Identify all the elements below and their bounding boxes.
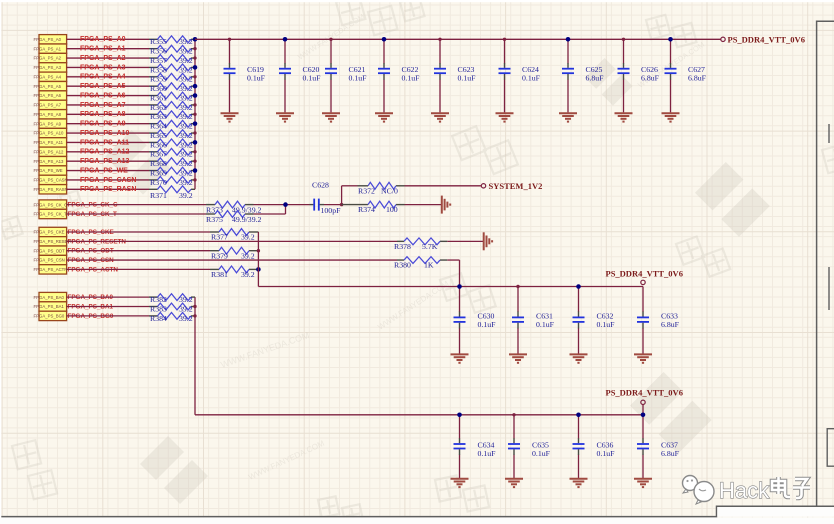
resistor R371 — [149, 186, 195, 200]
svg-text:PS_DDR4_VTT_0V6: PS_DDR4_VTT_0V6 — [728, 34, 805, 44]
svg-text:FPGA_PS_A12: FPGA_PS_A12 — [34, 149, 64, 154]
svg-text:39.2: 39.2 — [179, 304, 193, 313]
ground C636 — [570, 479, 588, 487]
wire stem C631 — [517, 287, 519, 313]
svg-text:39.2: 39.2 — [241, 251, 255, 260]
junction C626 — [622, 38, 625, 41]
capacitor C634 — [454, 438, 497, 458]
resistor R365 — [149, 130, 195, 140]
svg-text:PS_DDR4_VTT_0V6: PS_DDR4_VTT_0V6 — [606, 388, 683, 398]
svg-text:FPGA_PS_A5: FPGA_PS_A5 — [80, 83, 126, 90]
junction ODT tap — [257, 249, 260, 252]
wire VTT bus 1 — [258, 286, 643, 288]
wire FPGA_PS_BA1 — [67, 306, 149, 308]
svg-text:FPGA_PS_A6: FPGA_PS_A6 — [80, 92, 126, 99]
resistor R357 — [149, 55, 195, 65]
svg-text:R361: R361 — [150, 93, 167, 102]
svg-text:FPGA_PS_A13: FPGA_PS_A13 — [34, 159, 64, 164]
junction C631 — [516, 285, 519, 288]
svg-text:PS_DDR4_VTT_0V6: PS_DDR4_VTT_0V6 — [606, 269, 683, 279]
wire stem C623 — [439, 39, 441, 63]
svg-text:0.1uF: 0.1uF — [597, 449, 616, 458]
svg-text:39.2: 39.2 — [179, 295, 193, 304]
svg-text:R372: R372 — [358, 187, 375, 196]
wire BA bus vertical — [194, 297, 196, 415]
resistor R384 — [149, 313, 195, 323]
wire CKE — [67, 231, 210, 233]
svg-text:FPGA_PS_A7: FPGA_PS_A7 — [34, 103, 62, 108]
svg-text:FPGA_PS_RASN: FPGA_PS_RASN — [34, 187, 68, 192]
ground C630 — [451, 354, 469, 362]
svg-text:R363: R363 — [150, 112, 167, 121]
power port SYSTEM_1V2 — [481, 184, 485, 188]
top margin — [0, 0, 834, 2]
ground C626 — [615, 113, 633, 121]
capacitor C630 — [454, 312, 497, 330]
resistor R358 — [149, 64, 195, 74]
svg-text:R379: R379 — [211, 251, 228, 260]
junction C622 — [382, 37, 387, 42]
svg-text:FPGA_PS_A3: FPGA_PS_A3 — [80, 64, 126, 71]
svg-text:R382: R382 — [150, 295, 167, 304]
svg-text:R356: R356 — [150, 47, 167, 56]
right edge bracket — [827, 429, 834, 467]
svg-text:39.2: 39.2 — [179, 47, 193, 56]
sheet border right — [817, 21, 834, 506]
ground after R378 — [484, 232, 492, 250]
power port PS_DDR4_VTT_0V6 top — [721, 37, 725, 41]
svg-text:39.2: 39.2 — [179, 37, 193, 46]
svg-text:39.2: 39.2 — [179, 65, 193, 74]
ground C632 — [570, 354, 588, 362]
svg-text:FPGA_PS_A7: FPGA_PS_A7 — [80, 102, 126, 109]
resistor R360 — [149, 83, 195, 93]
svg-text:39.2: 39.2 — [179, 131, 193, 140]
svg-text:6.8uF: 6.8uF — [688, 73, 707, 82]
capacitor C626 — [618, 63, 660, 82]
resistor R381 — [210, 266, 258, 279]
right edge segment 1 — [828, 124, 830, 143]
ground C622 — [375, 113, 393, 121]
wire stem C626 — [623, 39, 625, 63]
svg-text:100pF: 100pF — [321, 206, 342, 215]
svg-text:FPGA_PS_A1: FPGA_PS_A1 — [80, 46, 126, 53]
wire R372 to SYSTEM_1V2 — [405, 185, 482, 187]
svg-text:39.2: 39.2 — [241, 233, 255, 242]
port group FPGA_PS CKE..ACTN — [34, 227, 74, 274]
svg-text:39.2: 39.2 — [179, 168, 193, 177]
ground C621 — [322, 113, 340, 121]
ground C635 — [505, 479, 523, 487]
svg-text:FPGA_PS_A10: FPGA_PS_A10 — [34, 131, 64, 136]
junction row 1 — [193, 47, 196, 50]
wire FPGA_PS_A5 — [67, 85, 149, 87]
svg-text:FPGA_PS_A8: FPGA_PS_A8 — [80, 111, 126, 118]
svg-text:FPGA_PS_A5: FPGA_PS_A5 — [34, 84, 62, 89]
power port PS_DDR4_VTT_0V6 mid — [641, 280, 645, 284]
svg-text:FPGA_PS_A10: FPGA_PS_A10 — [80, 130, 130, 137]
svg-text:R370: R370 — [150, 178, 167, 187]
wire VTT port stub — [642, 405, 644, 415]
svg-text:0.1uF: 0.1uF — [349, 73, 368, 82]
wire FPGA_PS_A10 — [67, 132, 149, 134]
capacitor C622 — [378, 63, 420, 82]
bottom margin — [0, 518, 834, 524]
svg-text:FPGA_PS_A13: FPGA_PS_A13 — [80, 158, 130, 165]
junction row 0 — [193, 37, 198, 42]
svg-text:39.2: 39.2 — [179, 112, 193, 121]
wire FPGA_PS_A1 — [67, 48, 149, 50]
capacitor C625 — [562, 63, 604, 82]
svg-text:FPGA_PS_A4: FPGA_PS_A4 — [80, 74, 126, 81]
wire CK_C to C628 — [254, 204, 310, 206]
svg-text:FPGA_PS_WE: FPGA_PS_WE — [80, 167, 128, 174]
resistor R375 — [206, 211, 262, 224]
capacitor C628 — [310, 181, 342, 215]
wire FPGA_PS_A0 — [67, 38, 149, 40]
bottom right margin — [717, 507, 834, 516]
capacitor C624 — [499, 63, 541, 82]
svg-text:R375: R375 — [206, 215, 223, 224]
wire PS_DDR4_VTT_0V6 top bus — [195, 38, 721, 40]
wire stem C627 — [670, 39, 672, 63]
left margin — [0, 0, 1, 524]
svg-text:39.2: 39.2 — [179, 150, 193, 159]
resistor R370 — [149, 177, 195, 187]
svg-text:FPGA_PS_CKE: FPGA_PS_CKE — [34, 230, 65, 235]
wire R380 drop — [447, 259, 459, 261]
resistor R372 — [358, 182, 405, 195]
resistor R379 — [210, 247, 258, 260]
wire resistor output bus — [194, 39, 196, 189]
ground C623 — [431, 113, 449, 121]
svg-text:R355: R355 — [150, 37, 167, 46]
junction CK join — [283, 202, 288, 207]
svg-text:0.1uF: 0.1uF — [458, 73, 477, 82]
svg-text:39.2: 39.2 — [241, 270, 255, 279]
junction row 7 — [193, 103, 196, 106]
wire FPGA_PS_A9 — [67, 123, 149, 125]
wire CSN — [67, 259, 397, 261]
junction row 12 — [193, 150, 196, 153]
svg-text:39.2: 39.2 — [179, 122, 193, 131]
capacitor C623 — [434, 63, 476, 82]
svg-text:R380: R380 — [394, 261, 411, 270]
resistor R355 — [149, 36, 195, 46]
svg-text:FPGA_PS_A11: FPGA_PS_A11 — [34, 140, 64, 145]
resistor R374 — [342, 201, 405, 214]
wire FPGA_PS_A7 — [67, 104, 149, 106]
svg-text:FPGA_PS_A0: FPGA_PS_A0 — [34, 37, 62, 42]
wire CK_T — [67, 213, 206, 215]
junction C634 — [457, 413, 462, 418]
svg-text:R374: R374 — [358, 205, 375, 214]
wire stem C624 — [504, 39, 506, 63]
resistor R361 — [149, 92, 195, 102]
resistor R364 — [149, 120, 195, 130]
wire FPGA_PS_A6 — [67, 95, 149, 97]
svg-text:39.2: 39.2 — [179, 159, 193, 168]
svg-text:FPGA_PS_A2: FPGA_PS_A2 — [80, 55, 126, 62]
svg-text:R364: R364 — [150, 122, 167, 131]
port group FPGA_PS_CK — [34, 200, 68, 219]
svg-text:FPGA_PS_A12: FPGA_PS_A12 — [80, 149, 130, 156]
svg-text:FPGA_PS_ACTN: FPGA_PS_ACTN — [34, 267, 68, 272]
ground C627 — [662, 113, 680, 121]
junction row 13 — [193, 159, 196, 162]
wire FPGA_PS_BA0 — [67, 296, 149, 298]
wire FPGA_PS_A12 — [67, 151, 149, 153]
junction C621 — [329, 38, 332, 41]
junction ACTN tap — [256, 267, 261, 272]
svg-text:FPGA_PS_A6: FPGA_PS_A6 — [34, 93, 62, 98]
svg-text:R357: R357 — [150, 56, 167, 65]
junction row 11 — [193, 140, 198, 145]
resistor R363 — [149, 111, 195, 121]
ground C634 — [451, 479, 469, 487]
ground C637 — [634, 479, 652, 487]
wire FPGA_PS_A2 — [67, 57, 149, 59]
svg-text:R366: R366 — [150, 140, 167, 149]
capacitor C631 — [512, 312, 555, 330]
svg-text:R360: R360 — [150, 84, 167, 93]
wire RESETN — [67, 240, 397, 242]
svg-text:49.9/39.2: 49.9/39.2 — [232, 215, 262, 224]
wire stem C637 — [642, 415, 644, 439]
wire FPGA_PS_CASN — [67, 179, 149, 181]
resistor R378 — [394, 238, 447, 251]
junction C632 — [576, 284, 581, 289]
wire FPGA_PS_A3 — [67, 66, 149, 68]
svg-text:C628: C628 — [312, 181, 329, 190]
wire C628 to junction — [324, 204, 342, 206]
wire up to R372 row — [341, 186, 343, 205]
junction C620 — [283, 37, 288, 42]
junction BG0 — [193, 314, 196, 317]
svg-text:39.2: 39.2 — [179, 178, 193, 187]
resistor R359 — [149, 73, 195, 83]
svg-text:39.2: 39.2 — [179, 84, 193, 93]
resistor R356 — [149, 45, 195, 55]
resistor R367 — [149, 148, 195, 158]
svg-text:100: 100 — [386, 205, 398, 214]
svg-text:0.1uF: 0.1uF — [478, 449, 497, 458]
svg-text:39.2: 39.2 — [179, 314, 193, 323]
svg-text:FPGA_PS_CASN: FPGA_PS_CASN — [80, 177, 136, 184]
svg-text:FPGA_PS_A2: FPGA_PS_A2 — [34, 56, 62, 61]
wire R378 to ground — [447, 240, 483, 242]
wire stem C633 — [642, 287, 644, 313]
Hack logo mark — [683, 476, 715, 505]
wire ODT — [67, 250, 210, 252]
resistor R383 — [149, 303, 195, 313]
junction C624 — [503, 38, 506, 41]
junction C635 — [512, 413, 515, 416]
wire stem C632 — [578, 287, 580, 313]
svg-text:R367: R367 — [150, 150, 167, 159]
ground C619 — [221, 113, 239, 121]
ground C625 — [559, 113, 577, 121]
wire stem C619 — [229, 39, 231, 63]
wire stem C634 — [459, 415, 461, 439]
ground C631 — [509, 354, 527, 362]
wire stem C621 — [330, 39, 332, 63]
ground C620 — [276, 113, 294, 121]
svg-text:6.8uF: 6.8uF — [661, 320, 680, 329]
svg-text:FPGA_PS_A9: FPGA_PS_A9 — [34, 121, 62, 126]
resistor R369 — [149, 167, 195, 177]
svg-text:6.8uF: 6.8uF — [586, 73, 605, 82]
junction row 15 — [193, 178, 196, 181]
wire stem C635 — [513, 415, 515, 439]
resistor R368 — [149, 158, 195, 168]
junction row 2 — [193, 56, 196, 59]
wire CK_C — [67, 204, 206, 206]
resistor R382 — [149, 294, 195, 304]
svg-text:R359: R359 — [150, 75, 167, 84]
ground C633 — [634, 354, 652, 362]
svg-text:FPGA_PS_BA1: FPGA_PS_BA1 — [34, 304, 65, 309]
Hack text — [719, 477, 810, 503]
svg-text:FPGA_PS_BG0: FPGA_PS_BG0 — [34, 314, 65, 319]
svg-text:0.1uF: 0.1uF — [478, 320, 497, 329]
svg-text:R384: R384 — [150, 314, 167, 323]
svg-text:1K: 1K — [424, 261, 434, 270]
ground C624 — [496, 113, 514, 121]
junction row 9 — [193, 121, 198, 126]
svg-text:FPGA_PS_A3: FPGA_PS_A3 — [34, 65, 62, 70]
svg-text:0.1uF: 0.1uF — [247, 73, 266, 82]
port group FPGA_PS address/control — [34, 35, 68, 194]
junction C625 — [566, 37, 571, 42]
svg-text:39.2: 39.2 — [179, 103, 193, 112]
capacitor C636 — [573, 438, 616, 458]
svg-text:39.2: 39.2 — [179, 93, 193, 102]
svg-text:R383: R383 — [150, 304, 167, 313]
capacitor C635 — [508, 438, 551, 458]
wire FPGA_PS_A11 — [67, 141, 149, 143]
wire stem C622 — [383, 39, 385, 63]
svg-text:R365: R365 — [150, 131, 167, 140]
wire VTT bus 2 — [195, 414, 643, 416]
capacitor C627 — [665, 63, 707, 82]
wire FPGA_PS_A8 — [67, 113, 149, 115]
resistor R366 — [149, 139, 195, 149]
junction BA1 — [193, 305, 196, 308]
junction row 8 — [193, 113, 196, 116]
svg-text:39.2: 39.2 — [179, 140, 193, 149]
junction row 14 — [193, 168, 198, 173]
svg-text:FPGA_PS_CK_C: FPGA_PS_CK_C — [34, 202, 68, 207]
resistor R362 — [149, 102, 195, 112]
wire VTT tap vertical — [257, 232, 259, 287]
svg-text:FPGA_PS_A4: FPGA_PS_A4 — [34, 74, 62, 79]
svg-text:6.8uF: 6.8uF — [661, 449, 680, 458]
wire stem C625 — [567, 39, 569, 63]
junction C637 — [641, 413, 646, 418]
svg-text:0.1uF: 0.1uF — [597, 320, 616, 329]
svg-text:FPGA_PS_CSN: FPGA_PS_CSN — [34, 258, 65, 263]
svg-text:FPGA_PS_WE: FPGA_PS_WE — [34, 168, 63, 173]
capacitor C637 — [637, 438, 680, 458]
capacitor C632 — [573, 312, 616, 330]
wire FPGA_PS_WE — [67, 170, 149, 172]
svg-text:FPGA_PS_A0: FPGA_PS_A0 — [80, 36, 126, 43]
svg-text:R378: R378 — [394, 242, 411, 251]
svg-text:NC/0: NC/0 — [381, 187, 398, 196]
svg-text:39.2: 39.2 — [179, 191, 193, 200]
sheet border bottom — [0, 506, 834, 516]
wire FPGA_PS_A13 — [67, 160, 149, 162]
capacitor C619 — [224, 63, 266, 82]
svg-text:FPGA_PS_A8: FPGA_PS_A8 — [34, 112, 62, 117]
svg-text:0.1uF: 0.1uF — [303, 73, 322, 82]
junction row 10 — [193, 131, 196, 134]
svg-text:SYSTEM_1V2: SYSTEM_1V2 — [489, 181, 543, 191]
svg-text:FPGA_PS_A9: FPGA_PS_A9 — [80, 121, 126, 128]
wire ACTN — [67, 268, 210, 270]
capacitor C621 — [325, 63, 367, 82]
capacitor C633 — [637, 312, 680, 330]
svg-text:FPGA_PS_BA0: FPGA_PS_BA0 — [34, 295, 65, 300]
wire stem C636 — [578, 415, 580, 439]
svg-text:Hack: Hack — [719, 478, 770, 503]
wire R374 to ground — [405, 204, 442, 206]
wire stem C620 — [284, 39, 286, 63]
junction C627 — [668, 37, 673, 42]
wire FPGA_PS_RASN — [67, 188, 149, 190]
svg-text:R368: R368 — [150, 159, 167, 168]
svg-text:0.1uF: 0.1uF — [536, 320, 555, 329]
svg-text:FPGA_PS_A11: FPGA_PS_A11 — [80, 139, 129, 146]
junction after C628 — [340, 203, 343, 206]
junction row 3 — [193, 65, 198, 70]
junction row 4 — [193, 75, 196, 78]
junction C630 — [457, 284, 462, 289]
wire CK_T join — [254, 213, 286, 215]
svg-text:R381: R381 — [211, 270, 228, 279]
svg-text:FPGA_PS_ODT: FPGA_PS_ODT — [34, 248, 66, 253]
svg-text:R373: R373 — [206, 205, 223, 214]
svg-text:5.7K: 5.7K — [422, 242, 438, 251]
svg-text:FPGA_PS_A1: FPGA_PS_A1 — [34, 46, 62, 51]
power port PS_DDR4_VTT_0V6 bottom — [641, 400, 645, 404]
resistor R373 — [206, 201, 262, 214]
capacitor C620 — [279, 63, 321, 82]
junction C619 — [228, 38, 231, 41]
svg-text:0.1uF: 0.1uF — [522, 73, 541, 82]
svg-text:R358: R358 — [150, 65, 167, 74]
wire stem C630 — [459, 287, 461, 313]
ground after R374 — [442, 196, 450, 214]
junction row 5 — [193, 84, 198, 89]
svg-text:39.2: 39.2 — [179, 75, 193, 84]
svg-text:R362: R362 — [150, 103, 167, 112]
junction C623 — [438, 38, 441, 41]
junction C636 — [576, 413, 581, 418]
resistor R380 — [394, 257, 447, 270]
svg-text:R377: R377 — [211, 233, 228, 242]
right edge segment 2 — [828, 267, 830, 310]
wire FPGA_PS_A4 — [67, 76, 149, 78]
svg-text:R369: R369 — [150, 168, 167, 177]
svg-text:0.1uF: 0.1uF — [402, 73, 421, 82]
junction row 6 — [193, 93, 198, 98]
resistor R377 — [210, 229, 258, 242]
svg-text:FPGA_PS_RASN: FPGA_PS_RASN — [80, 186, 136, 193]
wire FPGA_PS_BG0 — [67, 315, 149, 317]
svg-text:FPGA_PS_CK_T: FPGA_PS_CK_T — [34, 212, 68, 217]
